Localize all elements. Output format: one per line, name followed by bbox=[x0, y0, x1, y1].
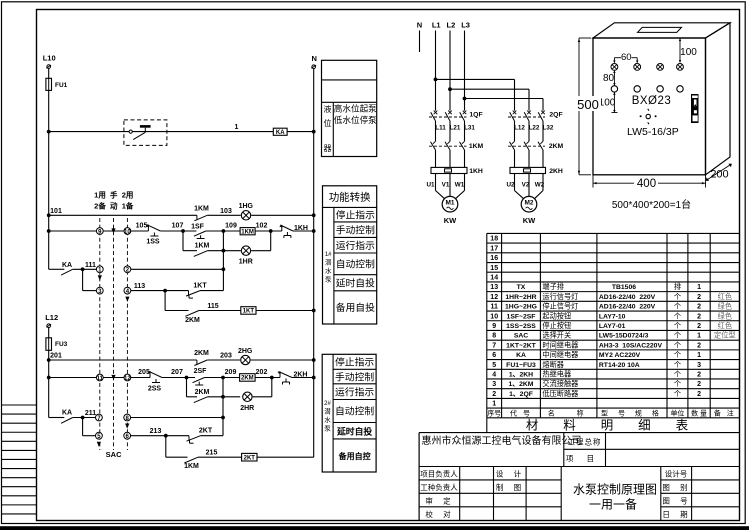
svg-text:209: 209 bbox=[225, 369, 237, 376]
svg-text:FU3: FU3 bbox=[55, 341, 68, 348]
terminal N bbox=[311, 54, 317, 68]
svg-text:1#: 1# bbox=[325, 252, 332, 258]
function box pump2 bbox=[322, 354, 376, 472]
svg-text:2备: 2备 bbox=[94, 201, 106, 211]
svg-text:11: 11 bbox=[490, 304, 498, 311]
fuse FU3 bbox=[46, 338, 68, 351]
svg-text:103: 103 bbox=[220, 208, 232, 215]
svg-text:1HG: 1HG bbox=[239, 203, 254, 210]
svg-text:自动控制: 自动控制 bbox=[335, 405, 374, 418]
lamp 1HG bbox=[239, 203, 254, 220]
svg-text:1KT~2KT: 1KT~2KT bbox=[506, 342, 536, 349]
svg-text:泵: 泵 bbox=[325, 276, 332, 284]
svg-text:水: 水 bbox=[325, 266, 332, 275]
svg-text:自动控制: 自动控制 bbox=[336, 258, 375, 271]
svg-text:113: 113 bbox=[134, 283, 145, 290]
selector SAC contact 2 bbox=[124, 266, 131, 273]
svg-text:个: 个 bbox=[674, 292, 681, 301]
svg-text:9: 9 bbox=[492, 323, 496, 330]
svg-text:个: 个 bbox=[674, 321, 681, 330]
svg-text:序号: 序号 bbox=[487, 409, 501, 418]
svg-text:型 号 规 格: 型 号 规 格 bbox=[601, 409, 663, 418]
wire 113 branch down bbox=[164, 291, 166, 311]
svg-text:1KM: 1KM bbox=[469, 143, 484, 150]
svg-text:L1: L1 bbox=[432, 21, 441, 30]
svg-text:定位型: 定位型 bbox=[714, 331, 736, 340]
svg-text:1KM: 1KM bbox=[195, 243, 210, 250]
svg-text:低水位停泵: 低水位停泵 bbox=[334, 114, 377, 125]
svg-text:AH3-3 10S/AC220V: AH3-3 10S/AC220V bbox=[599, 342, 663, 349]
selector SAC contact 10 bbox=[124, 228, 131, 235]
svg-text:3: 3 bbox=[697, 362, 701, 369]
svg-text:运行信号灯: 运行信号灯 bbox=[542, 292, 578, 301]
lamp 2HG bbox=[238, 348, 253, 365]
svg-text:选择开关: 选择开关 bbox=[542, 331, 571, 340]
svg-text:2KM: 2KM bbox=[241, 376, 254, 382]
svg-text:1: 1 bbox=[492, 401, 496, 408]
thermal relay 1KH element bbox=[431, 167, 483, 175]
wire 101 bus bbox=[49, 214, 197, 216]
svg-text:水: 水 bbox=[324, 415, 331, 424]
wire 105 bbox=[131, 230, 149, 232]
svg-text:3: 3 bbox=[492, 381, 496, 388]
svg-text:TB1506: TB1506 bbox=[612, 284, 636, 291]
svg-text:个: 个 bbox=[674, 340, 681, 349]
contact 1KM auxiliary NO bbox=[183, 243, 210, 257]
material list table grid bbox=[487, 233, 740, 417]
contactor 2KM main contacts bbox=[508, 141, 564, 150]
svg-text:1SF: 1SF bbox=[191, 224, 205, 231]
svg-text:100: 100 bbox=[599, 98, 616, 109]
svg-text:1: 1 bbox=[697, 352, 701, 359]
svg-text:AD16-22/40 220V: AD16-22/40 220V bbox=[599, 294, 656, 301]
wire L2 feeder bbox=[449, 31, 451, 111]
drawing title bbox=[573, 483, 657, 512]
svg-text:12: 12 bbox=[490, 294, 498, 301]
wire 1KT coil to N bbox=[256, 310, 314, 312]
svg-text:500*400*200=1台: 500*400*200=1台 bbox=[612, 198, 691, 211]
wire hand-control rung pump2 bbox=[49, 377, 97, 379]
selector SAC contact 9 bbox=[96, 228, 103, 235]
material list table title bbox=[419, 418, 739, 433]
wire 1HG to N bbox=[251, 214, 314, 216]
svg-text:1SS~2SS: 1SS~2SS bbox=[506, 323, 536, 330]
svg-text:1、2QF: 1、2QF bbox=[509, 391, 533, 398]
svg-text:215: 215 bbox=[206, 450, 218, 457]
wire 203 bbox=[207, 359, 240, 361]
contact KA relay NO pump1 bbox=[49, 262, 73, 275]
wire N vertical bus bbox=[313, 69, 315, 458]
svg-text:工程总称: 工程总称 bbox=[568, 437, 602, 447]
svg-text:17: 17 bbox=[490, 245, 498, 252]
svg-text:运行指示: 运行指示 bbox=[336, 239, 375, 252]
svg-text:停止按钮: 停止按钮 bbox=[542, 321, 571, 330]
wire 209 bbox=[205, 377, 240, 379]
wire 2KH to N bbox=[292, 377, 314, 379]
title block labels bbox=[420, 437, 689, 520]
thermal overload contact 1KH bbox=[279, 225, 308, 238]
svg-text:延时自投: 延时自投 bbox=[336, 277, 375, 290]
svg-text:设 计: 设 计 bbox=[496, 469, 523, 479]
svg-text:2KM: 2KM bbox=[549, 143, 564, 150]
svg-text:W1: W1 bbox=[455, 182, 465, 189]
svg-text:100: 100 bbox=[680, 47, 697, 58]
wire 215 bbox=[198, 456, 242, 458]
wire L12 vertical bus bbox=[48, 328, 50, 418]
svg-text:BXØ23: BXØ23 bbox=[632, 95, 672, 107]
svg-text:4: 4 bbox=[492, 372, 496, 379]
svg-text:1KM: 1KM bbox=[194, 206, 209, 213]
svg-text:动: 动 bbox=[110, 201, 118, 211]
svg-text:1KH: 1KH bbox=[469, 168, 483, 175]
wire L3 feeder bbox=[464, 31, 466, 111]
svg-text:500: 500 bbox=[577, 97, 599, 112]
wire 111 branch down bbox=[82, 269, 84, 290]
wire 205 bbox=[131, 377, 150, 379]
svg-text:L32: L32 bbox=[543, 125, 554, 132]
wire 2KT to node bbox=[201, 435, 224, 437]
svg-text:一用一备: 一用一备 bbox=[589, 498, 637, 512]
svg-text:运行指示: 运行指示 bbox=[335, 385, 374, 398]
svg-text:个: 个 bbox=[674, 389, 681, 398]
terminal L12 bbox=[45, 313, 58, 328]
panel lamps row bbox=[611, 64, 683, 71]
wire 207 branch down bbox=[186, 378, 188, 397]
svg-text:N: N bbox=[311, 54, 316, 63]
svg-text:2: 2 bbox=[697, 391, 701, 398]
wire 1KM aux to node bbox=[208, 250, 241, 252]
wire 107 bbox=[160, 230, 196, 232]
level controller description box bbox=[322, 60, 378, 156]
svg-text:设计号: 设计号 bbox=[665, 469, 688, 479]
selector SAC contact 7 bbox=[96, 414, 103, 421]
svg-text:101: 101 bbox=[50, 208, 62, 215]
svg-text:1用: 1用 bbox=[94, 191, 106, 200]
svg-text:绿色: 绿色 bbox=[718, 311, 732, 320]
svg-text:1HR~2HR: 1HR~2HR bbox=[505, 294, 536, 301]
svg-text:12: 12 bbox=[124, 376, 131, 382]
panel lock bbox=[691, 94, 699, 123]
svg-text:L10: L10 bbox=[43, 54, 56, 63]
svg-text:SAC: SAC bbox=[106, 450, 122, 459]
wire L1 branch to pump2 bbox=[436, 78, 515, 80]
svg-text:N: N bbox=[417, 21, 422, 30]
wire auto rung to node bbox=[131, 268, 224, 270]
svg-text:2KM: 2KM bbox=[185, 317, 200, 324]
material list table rows bbox=[490, 236, 735, 408]
svg-text:L22: L22 bbox=[529, 125, 540, 132]
svg-text:停止指示: 停止指示 bbox=[335, 356, 374, 369]
svg-text:FU1~FU3: FU1~FU3 bbox=[506, 362, 536, 369]
pushbutton 1SF start bbox=[191, 224, 206, 239]
svg-text:熔断器: 熔断器 bbox=[542, 360, 564, 369]
circuit breaker 1QF bbox=[429, 111, 483, 121]
svg-text:手动控制: 手动控制 bbox=[335, 370, 374, 383]
time relay contact 2KT delayed NC bbox=[187, 428, 213, 444]
svg-text:2HR: 2HR bbox=[240, 405, 254, 412]
svg-text:1: 1 bbox=[697, 333, 701, 340]
svg-text:热继电器: 热继电器 bbox=[542, 370, 571, 379]
svg-text:2KH: 2KH bbox=[549, 168, 563, 175]
svg-text:U1: U1 bbox=[426, 182, 435, 189]
svg-text:延时自投: 延时自投 bbox=[336, 425, 372, 436]
svg-text:惠州市众恒源工控电气设备有限公司: 惠州市众恒源工控电气设备有限公司 bbox=[422, 434, 582, 447]
svg-text:6: 6 bbox=[492, 352, 496, 359]
wire L2 branch to pump2 bbox=[450, 88, 529, 90]
svg-text:8: 8 bbox=[492, 333, 496, 340]
svg-text:起动按钮: 起动按钮 bbox=[542, 311, 571, 320]
svg-text:手动控制: 手动控制 bbox=[336, 224, 375, 237]
motor M2 bbox=[515, 174, 544, 226]
wire L3 branch to pump2 bbox=[465, 98, 544, 100]
svg-text:10: 10 bbox=[490, 313, 498, 320]
svg-text:泵: 泵 bbox=[324, 425, 331, 433]
wire 213 branch down bbox=[165, 436, 167, 458]
svg-text:液: 液 bbox=[324, 104, 332, 114]
svg-text:7: 7 bbox=[492, 342, 496, 349]
wire 1HR to 102 branch bbox=[251, 250, 271, 252]
svg-text:时间继电器: 时间继电器 bbox=[542, 340, 578, 349]
svg-text:停止信号灯: 停止信号灯 bbox=[542, 302, 578, 311]
wire 211 bbox=[73, 417, 96, 419]
panel buttons row bbox=[611, 86, 683, 92]
wires KM to KH bbox=[436, 150, 544, 167]
selector SAC contact 12 bbox=[124, 374, 131, 381]
svg-text:L12: L12 bbox=[514, 125, 525, 132]
svg-text:备用自投: 备用自投 bbox=[336, 301, 375, 314]
svg-text:制 图: 制 图 bbox=[496, 482, 523, 492]
svg-text:400: 400 bbox=[637, 178, 656, 190]
contactor coil 2KM bbox=[240, 374, 256, 382]
svg-text:L21: L21 bbox=[450, 125, 461, 132]
float switch (liquid level) bbox=[124, 120, 167, 145]
function box pump1 bbox=[323, 186, 377, 324]
svg-text:1SF~2SF: 1SF~2SF bbox=[507, 313, 536, 320]
svg-text:2: 2 bbox=[697, 294, 701, 301]
svg-text:个: 个 bbox=[674, 302, 681, 311]
wire L10 vertical bus bbox=[48, 68, 50, 269]
svg-text:213: 213 bbox=[150, 428, 162, 435]
svg-text:个: 个 bbox=[674, 311, 681, 320]
thermal overload contact 2KH bbox=[277, 371, 307, 384]
svg-text:KA: KA bbox=[516, 352, 526, 359]
svg-text:109: 109 bbox=[225, 222, 237, 229]
svg-text:代 号: 代 号 bbox=[510, 409, 532, 418]
dimension 500 bbox=[576, 38, 601, 175]
svg-text:低压断路器: 低压断路器 bbox=[542, 389, 578, 398]
svg-text:L12: L12 bbox=[45, 313, 58, 322]
wire vertical node209 chain bbox=[222, 378, 224, 436]
wire 111 bbox=[73, 268, 97, 270]
svg-text:红色: 红色 bbox=[718, 292, 732, 301]
svg-text:2: 2 bbox=[697, 372, 701, 379]
dimension 100 bottom bbox=[599, 92, 618, 112]
svg-text:1HR: 1HR bbox=[239, 259, 253, 266]
svg-text:L2: L2 bbox=[447, 21, 456, 30]
wire N stub bbox=[419, 31, 421, 53]
svg-text:材 料 明 细 表: 材 料 明 细 表 bbox=[526, 419, 694, 433]
svg-text:60: 60 bbox=[621, 52, 632, 63]
svg-text:个: 个 bbox=[674, 379, 681, 388]
svg-text:1、2KM: 1、2KM bbox=[509, 381, 534, 388]
svg-text:2用: 2用 bbox=[122, 191, 134, 200]
svg-text:107: 107 bbox=[172, 223, 184, 230]
motor M1 bbox=[436, 174, 465, 226]
time relay coil 1KT bbox=[241, 307, 256, 315]
panel enclosure outline bbox=[593, 23, 730, 175]
svg-text:潜: 潜 bbox=[325, 258, 332, 267]
dimension 200 bbox=[706, 164, 732, 181]
wire L1 feeder bbox=[435, 31, 437, 111]
selector SAC dashed linkage lines bbox=[100, 218, 128, 450]
svg-text:潜: 潜 bbox=[324, 407, 331, 416]
svg-text:TX: TX bbox=[517, 284, 526, 291]
svg-text:KA: KA bbox=[276, 130, 285, 136]
svg-text:项目负责人: 项目负责人 bbox=[420, 469, 458, 479]
svg-text:LW5-16/3P: LW5-16/3P bbox=[627, 126, 679, 138]
svg-text:数 量: 数 量 bbox=[691, 409, 707, 418]
svg-text:203: 203 bbox=[220, 353, 232, 360]
svg-text:备用自控: 备用自控 bbox=[338, 451, 371, 461]
svg-text:1、2KH: 1、2KH bbox=[509, 372, 533, 379]
svg-text:2#: 2# bbox=[324, 401, 331, 407]
svg-text:2: 2 bbox=[697, 304, 701, 311]
wire 201 bus bbox=[49, 359, 197, 361]
wire 109 bbox=[206, 230, 240, 232]
svg-text:2: 2 bbox=[492, 391, 496, 398]
svg-text:绿色: 绿色 bbox=[718, 302, 732, 311]
svg-text:2KT: 2KT bbox=[244, 455, 256, 461]
title block grid bbox=[419, 433, 739, 521]
svg-text:2KM: 2KM bbox=[195, 389, 210, 396]
wire vertical node109 chain bbox=[222, 231, 224, 291]
wire 202 bbox=[255, 377, 280, 379]
svg-text:SAC: SAC bbox=[514, 333, 528, 340]
wire 107 branch down bbox=[182, 231, 184, 251]
svg-text:V1: V1 bbox=[442, 182, 450, 189]
contact 1KM auxiliary NO interlock bbox=[166, 457, 199, 470]
svg-text:2KM: 2KM bbox=[194, 350, 209, 357]
wire 213 bbox=[131, 435, 190, 437]
svg-text:名 称: 名 称 bbox=[548, 409, 590, 418]
svg-text:AD16-22/40 220V: AD16-22/40 220V bbox=[599, 304, 656, 311]
svg-text:单位: 单位 bbox=[670, 409, 684, 418]
svg-text:手: 手 bbox=[110, 190, 118, 200]
labels L12 L22 L32 bbox=[514, 125, 554, 132]
wire 11 to 12 bbox=[103, 377, 124, 379]
wire 102 bbox=[255, 230, 282, 232]
svg-text:KA: KA bbox=[62, 410, 72, 417]
selector SAC contact 4 bbox=[124, 287, 131, 294]
svg-text:高水位起泵: 高水位起泵 bbox=[334, 102, 377, 113]
wire hand-control rung pump1 bbox=[49, 230, 97, 232]
wire 2KM aux to node bbox=[208, 396, 241, 398]
panel selector switch symbol bbox=[640, 109, 657, 124]
selector SAC position header labels bbox=[94, 190, 134, 211]
svg-text:图 号: 图 号 bbox=[662, 497, 689, 506]
svg-text:红色: 红色 bbox=[718, 321, 732, 330]
wire 1KT to node bbox=[200, 290, 223, 292]
svg-text:2KT: 2KT bbox=[199, 428, 213, 435]
svg-text:个: 个 bbox=[674, 331, 681, 340]
svg-text:MY2 AC220V: MY2 AC220V bbox=[599, 352, 641, 359]
labels U1 V1 W1 bbox=[426, 182, 464, 189]
svg-text:中间继电器: 中间继电器 bbox=[542, 350, 578, 359]
svg-text:2: 2 bbox=[697, 323, 701, 330]
wire KA coil to N bbox=[287, 131, 314, 133]
svg-text:105: 105 bbox=[136, 223, 148, 230]
svg-text:207: 207 bbox=[171, 369, 183, 376]
svg-text:交流接触器: 交流接触器 bbox=[542, 379, 578, 388]
time relay coil 2KT bbox=[242, 453, 257, 461]
pushbutton 2SF start bbox=[193, 368, 208, 385]
svg-text:115: 115 bbox=[207, 303, 218, 310]
svg-text:15: 15 bbox=[490, 265, 498, 272]
svg-text:LW5-15D0724/3: LW5-15D0724/3 bbox=[599, 333, 649, 340]
svg-text:211: 211 bbox=[85, 410, 96, 417]
fuse FU1 bbox=[46, 78, 68, 90]
svg-text:16: 16 bbox=[490, 255, 498, 262]
wire 207 bbox=[162, 377, 195, 379]
svg-text:10: 10 bbox=[124, 229, 131, 235]
svg-text:校 对: 校 对 bbox=[425, 509, 452, 519]
selector SAC contact 11 bbox=[96, 374, 103, 381]
svg-text:201: 201 bbox=[50, 353, 62, 360]
wire 211 branch down bbox=[82, 418, 84, 436]
svg-text:个: 个 bbox=[674, 370, 681, 379]
svg-text:M1: M1 bbox=[445, 200, 454, 207]
svg-text:1HG~2HG: 1HG~2HG bbox=[505, 304, 537, 311]
wire 103 bbox=[207, 214, 241, 216]
svg-text:L11: L11 bbox=[435, 125, 446, 132]
lamp 1HR bbox=[239, 246, 253, 266]
svg-text:日 期: 日 期 bbox=[662, 510, 689, 519]
thermal relay 2KH element bbox=[510, 167, 563, 175]
svg-text:排: 排 bbox=[674, 282, 681, 291]
svg-text:102: 102 bbox=[256, 222, 268, 229]
svg-text:1: 1 bbox=[235, 124, 239, 131]
wire 115 bbox=[199, 310, 241, 312]
svg-text:KW: KW bbox=[523, 216, 536, 225]
svg-text:U2: U2 bbox=[506, 182, 515, 189]
contact 2KM normally-closed bbox=[194, 350, 209, 365]
relay coil KA bbox=[273, 128, 287, 136]
svg-text:M2: M2 bbox=[524, 200, 533, 207]
contact KA relay NO pump2 bbox=[49, 410, 73, 424]
svg-text:2: 2 bbox=[697, 342, 701, 349]
svg-text:端子排: 端子排 bbox=[542, 282, 564, 291]
wire 2KT coil to N corner bbox=[257, 456, 314, 458]
svg-text:备 注: 备 注 bbox=[714, 409, 736, 418]
time relay contact 1KT delayed NC bbox=[186, 283, 207, 299]
svg-text:2SF: 2SF bbox=[194, 368, 208, 375]
svg-text:5: 5 bbox=[492, 362, 496, 369]
dimension 80 bbox=[603, 71, 616, 86]
wire 113 bbox=[131, 290, 189, 292]
selector SAC contact 1 bbox=[96, 266, 103, 273]
svg-text:1: 1 bbox=[697, 284, 701, 291]
svg-text:1SS: 1SS bbox=[146, 239, 160, 246]
svg-text:LAY7-10: LAY7-10 bbox=[599, 313, 626, 320]
svg-text:18: 18 bbox=[490, 236, 498, 243]
svg-text:1KM: 1KM bbox=[184, 463, 199, 470]
svg-text:2SS: 2SS bbox=[148, 386, 162, 393]
contact 2KM auxiliary NO bbox=[187, 389, 210, 403]
svg-text:个: 个 bbox=[674, 360, 681, 369]
pushbutton 1SS stop bbox=[146, 224, 161, 245]
svg-text:RT14-20 10A: RT14-20 10A bbox=[599, 362, 640, 369]
svg-text:个: 个 bbox=[674, 350, 681, 359]
